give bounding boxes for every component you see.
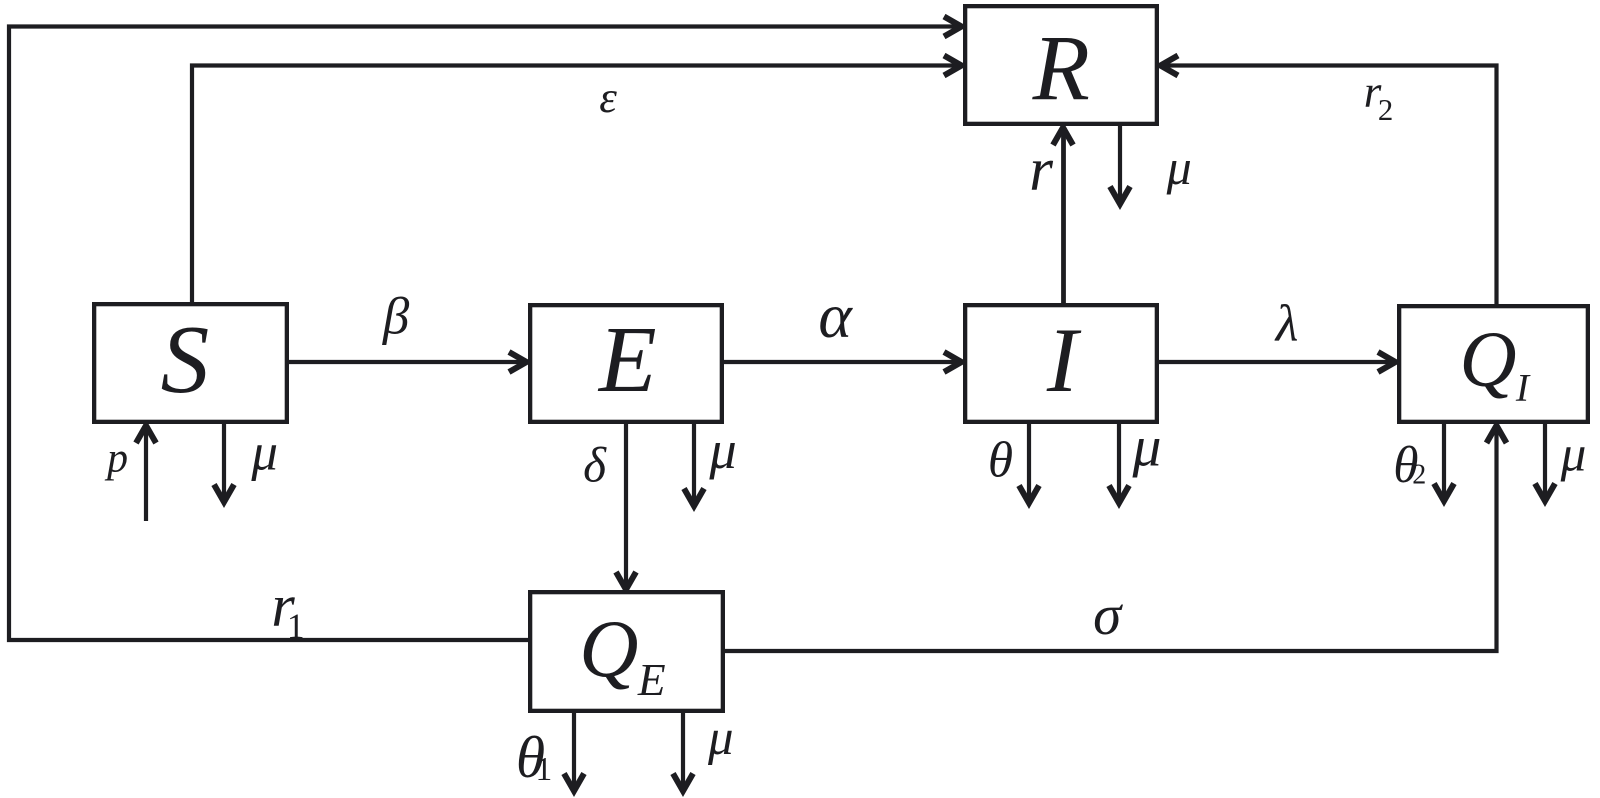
svg-text:σ: σ [1093,584,1123,647]
box R [965,6,1157,124]
svg-text:μ: μ [708,419,736,480]
box S [94,304,287,422]
svg-text:S: S [161,306,210,414]
svg-text:I: I [1046,309,1082,412]
svg-text:α: α [818,280,853,351]
wire r1 path: Q_E left, around left side, into R (with arrowhead) [9,27,956,641]
wire p arrow up into S bottom [144,432,148,522]
svg-text:r: r [1029,137,1053,204]
svg-text:μ: μ [1132,416,1162,479]
svg-text:Q: Q [1459,316,1516,403]
svg-text:β: β [382,287,410,345]
svg-text:ε: ε [599,72,617,122]
wire theta2 arrow down from Q_I bottom [1442,422,1446,495]
svg-text:2: 2 [1378,93,1393,127]
wire r2 path: Q_I top up, left into R right edge (with arrowhead) [1167,66,1497,307]
svg-text:1: 1 [536,751,553,788]
svg-text:θ: θ [988,432,1013,489]
wire theta arrow down from I bottom [1027,422,1031,497]
svg-text:I: I [1515,366,1531,410]
svg-text:μ: μ [1560,426,1587,483]
box I [965,305,1157,422]
svg-text:E: E [597,308,657,412]
svg-text:μ: μ [1166,139,1192,195]
wire epsilon path: S top up and right into R (with arrowhead) [192,66,956,305]
wire mu arrow down from E bottom [692,422,696,500]
wire mu arrow down from Q_I bottom [1543,422,1547,495]
wire beta arrow: S right to E left [287,360,521,364]
svg-text:2: 2 [1412,460,1426,491]
wire r arrow: I top up into R bottom [1061,134,1066,306]
svg-text:E: E [637,655,666,705]
wire alpha arrow: E right to I left [722,360,956,364]
svg-text:λ: λ [1274,295,1299,353]
svg-text:δ: δ [583,437,607,492]
box Q_E [530,592,723,711]
svg-text:1: 1 [287,606,305,646]
wire sigma path: Q_E right edge to below Q_I then up into Q_I bottom (with arrowhead) [723,432,1497,652]
svg-text:μ: μ [250,423,278,481]
svg-text:μ: μ [707,709,734,765]
svg-text:R: R [1032,18,1090,121]
wire mu arrow down from S bottom [222,422,226,496]
svg-text:p: p [104,436,128,482]
wire mu arrow down from R bottom [1118,124,1122,198]
wire delta arrow: E bottom down into Q_E top [624,422,628,584]
box Q_I [1399,306,1588,422]
wire lambda arrow: I right to Q_I left [1157,360,1390,364]
wire theta1 arrow down from Q_E bottom [572,711,576,785]
svg-text:Q: Q [579,603,638,694]
wire mu arrow down from Q_E bottom [681,711,685,785]
box E [530,305,722,422]
wire mu arrow down from I bottom [1117,422,1121,497]
